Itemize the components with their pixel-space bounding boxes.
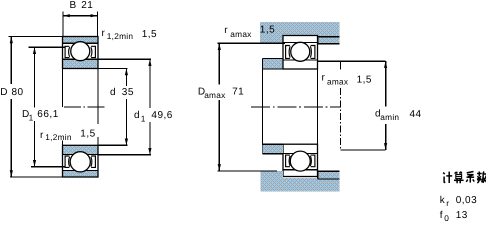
svg-text:amax: amax [204,90,226,100]
dimension d 35 [98,69,134,146]
factor kr 0,03 [440,195,477,208]
shaft shoulder face line [262,59,264,154]
svg-text:amax: amax [230,29,252,39]
right bearing upper section [283,36,318,70]
left centerline [64,106,107,108]
svg-text:r: r [40,130,44,141]
svg-text:49,6: 49,6 [151,110,172,121]
svg-text:k: k [440,195,446,206]
label r1,2min 1,5 (top) [102,28,158,41]
label ramax 1,5 (top) [224,24,275,39]
dimension D 80 [0,37,63,178]
svg-text:1,5: 1,5 [142,29,157,40]
svg-text:amax: amax [327,77,349,87]
svg-text:B: B [70,0,77,11]
ramax extension + damin dimension [318,61,422,150]
svg-text:35: 35 [122,87,134,98]
svg-text:13: 13 [456,210,468,221]
svg-text:1,5: 1,5 [260,24,275,35]
svg-text:d: d [134,110,140,121]
shaft shoulder block top [263,59,284,70]
factor f0 13 [440,210,468,223]
housing bore line + right bar (bottom) [318,178,340,180]
dimension d1 49,6 [98,59,173,155]
left bearing upper section [63,37,99,69]
housing bottom shoulder block [261,171,284,191]
svg-text:1: 1 [141,113,146,123]
svg-text:44: 44 [410,109,422,120]
left bearing lower section [63,145,99,177]
shaft shoulder block bottom [263,144,284,154]
svg-text:71: 71 [232,87,244,98]
dimension D1 66,1 [22,47,66,167]
right bearing lower section [283,144,318,176]
right bore silhouette [317,69,319,144]
svg-text:21: 21 [81,0,93,11]
right centerline [251,106,340,108]
svg-text:0: 0 [444,213,449,222]
housing bottom band [283,178,339,191]
svg-text:80: 80 [12,87,24,98]
svg-text:0,03: 0,03 [456,195,477,206]
svg-text:66,1: 66,1 [37,109,58,120]
svg-text:r: r [322,73,326,84]
left bore silhouette lines [62,69,64,108]
housing top shoulder block [260,22,283,43]
svg-text:1,2min: 1,2min [45,132,72,142]
dimension Damax 71 [198,43,285,171]
label r1,2min 1,5 (bottom) [40,128,96,142]
svg-text:f: f [440,210,443,221]
svg-text:1: 1 [29,112,34,122]
svg-text:r: r [224,25,228,36]
housing bore line + right bar (top) [318,36,340,38]
svg-text:r: r [102,28,106,39]
svg-text:1,5: 1,5 [357,74,372,85]
label ramax 1,5 (middle) [322,73,373,87]
svg-text:1,5: 1,5 [80,128,95,139]
svg-text:D: D [0,87,8,98]
svg-text:amin: amin [380,112,399,122]
svg-text:1,2min: 1,2min [107,31,134,41]
dimension B [63,0,97,36]
svg-text:d: d [110,87,116,98]
heading 计算系数 (calculation factors), drawn as strokes [443,172,486,184]
housing top band [283,22,339,36]
svg-text:r: r [446,198,449,208]
